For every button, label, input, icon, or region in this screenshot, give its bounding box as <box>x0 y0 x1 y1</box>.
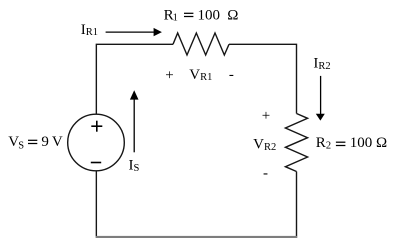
svg-text:-: - <box>263 165 268 181</box>
svg-text:+: + <box>165 68 173 84</box>
svg-text:VR2: VR2 <box>253 137 276 153</box>
svg-text:R2100Ω: R2100Ω <box>316 135 387 151</box>
svg-text:VS9V: VS9V <box>8 134 63 152</box>
svg-text:+: + <box>262 108 270 124</box>
svg-text:R1100Ω: R1100Ω <box>164 7 239 23</box>
svg-text:-: - <box>229 67 234 83</box>
svg-text:VR1: VR1 <box>189 67 212 83</box>
svg-text:IR2: IR2 <box>313 56 330 72</box>
svg-text:IS: IS <box>129 158 140 174</box>
svg-text:IR1: IR1 <box>81 22 98 38</box>
